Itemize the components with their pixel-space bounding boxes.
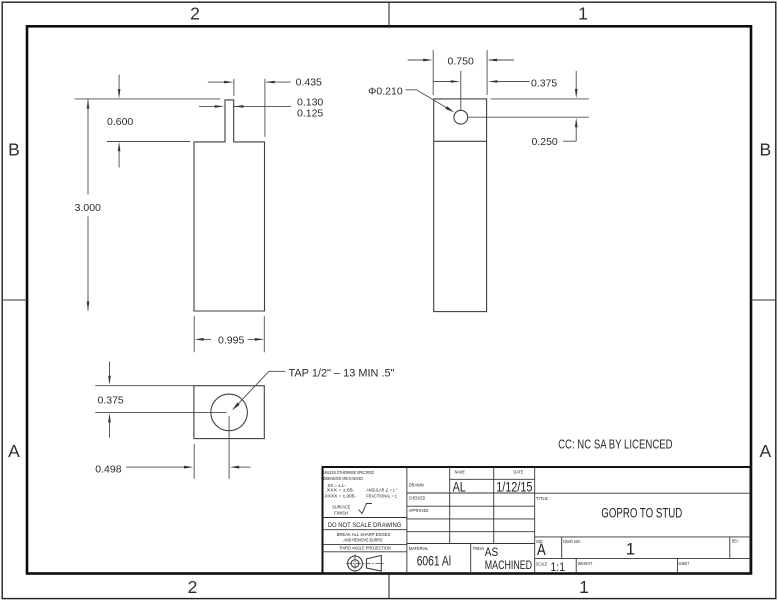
svg-text:.XXX = ±.05-: .XXX = ±.05- [325,488,355,493]
svg-text:2: 2 [190,3,200,23]
svg-text:DRAWN: DRAWN [409,483,424,488]
svg-text:CHECKED: CHECKED [409,496,425,501]
svg-text:TAP 1/2" – 13 MIN .5": TAP 1/2" – 13 MIN .5" [289,367,395,379]
svg-text:A: A [8,441,20,461]
svg-text:BREAK ALL SHARP EDGES: BREAK ALL SHARP EDGES [337,532,391,537]
svg-text:FRACTIONAL = ±: FRACTIONAL = ± [366,494,397,499]
svg-text:0.250: 0.250 [532,136,558,148]
svg-text:DWG NO.: DWG NO. [563,539,581,544]
svg-text:MATERIAL: MATERIAL [409,546,429,551]
svg-text:REV: REV [732,538,739,543]
svg-text:THIRD ANGLE PROJECTION: THIRD ANGLE PROJECTION [339,546,391,551]
svg-text:1/12/15: 1/12/15 [496,479,532,494]
svg-text:0.375: 0.375 [531,77,557,89]
svg-text:SURFACE: SURFACE [332,505,350,510]
svg-text:Φ0.210: Φ0.210 [368,85,403,97]
svg-text:UNLESS OTHERWISE SPECIFIED: UNLESS OTHERWISE SPECIFIED [323,470,374,475]
svg-text:3.000: 3.000 [75,202,101,214]
svg-text:0.750: 0.750 [448,56,474,68]
svg-text:SHEET: SHEET [678,561,689,566]
svg-text:1: 1 [626,541,635,559]
svg-text:0.498: 0.498 [95,463,121,475]
svg-text:2: 2 [188,577,198,597]
svg-text:DATE: DATE [514,469,524,474]
svg-text:DO NOT SCALE DRAWING: DO NOT SCALE DRAWING [328,522,402,529]
svg-text:TITLE: TITLE [536,496,548,501]
svg-text:.XXXX = ±.005-: .XXXX = ±.005- [324,494,357,499]
svg-text:FINISH: FINISH [473,546,484,551]
svg-text:AL: AL [453,479,466,494]
svg-text:A: A [759,441,771,461]
svg-text:GOPRO TO STUD: GOPRO TO STUD [601,505,682,520]
svg-text:NAME: NAME [455,469,465,474]
svg-text:1: 1 [579,577,589,597]
svg-text:0.435: 0.435 [296,77,322,89]
svg-text:A: A [537,541,546,559]
svg-text:0.375: 0.375 [98,394,124,406]
svg-text:MACHINED: MACHINED [485,558,533,572]
svg-text:B: B [759,140,771,160]
svg-text:1:1: 1:1 [551,560,566,574]
svg-text:6061 Al: 6061 Al [417,554,451,569]
svg-text:SCALE: SCALE [536,562,547,567]
svg-text:FINISH: FINISH [334,510,348,515]
svg-text:1: 1 [578,3,588,23]
svg-text:APPROVED: APPROVED [409,508,429,513]
svg-text:0.600: 0.600 [107,116,133,128]
svg-text:CC: NC SA BY LICENCED: CC: NC SA BY LICENCED [558,437,673,452]
svg-text:AND REMOVE BURRS: AND REMOVE BURRS [344,538,383,543]
svg-text:B: B [8,140,20,160]
svg-text:WEIGHT: WEIGHT [578,561,593,566]
svg-text:0.995: 0.995 [218,335,244,347]
svg-text:DIMENSIONS ARE IN INCHES: DIMENSIONS ARE IN INCHES [323,476,363,481]
svg-text:0.125: 0.125 [297,107,323,119]
svg-text:ANGULAR ∠ = ± °: ANGULAR ∠ = ± ° [366,488,397,493]
